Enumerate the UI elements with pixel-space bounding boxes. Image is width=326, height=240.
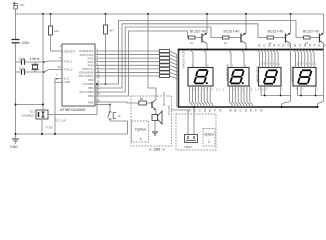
resistor pack 8x150R <box>160 50 179 80</box>
node rail-R1 <box>49 13 51 15</box>
svg-text:12p: 12p <box>19 57 25 61</box>
wire display4 segment pins <box>293 50 314 68</box>
option2 label frame <box>203 129 215 147</box>
wire left vertical <box>15 14 17 40</box>
display DIS1 <box>188 68 213 87</box>
+5V power symbol <box>13 2 24 14</box>
wire bottom gnd line <box>16 133 128 135</box>
wire segment lines from MCU <box>95 51 160 76</box>
wire display1 segment pins <box>190 86 213 107</box>
7seg digit 3 <box>264 70 278 83</box>
svg-text:ATMEGA8535: ATMEGA8535 <box>60 107 86 112</box>
resistor R1 10k reset pullup <box>49 14 63 51</box>
svg-text:<- OR ->: <- OR -> <box>149 147 166 152</box>
svg-text:10 9 7 6 4 2 1: 10 9 7 6 4 2 1 <box>259 62 281 66</box>
svg-text:RB20: RB20 <box>185 145 193 149</box>
svg-text:XTAL2: XTAL2 <box>64 67 73 71</box>
wire +5V to speaker transistor <box>148 14 156 100</box>
svg-text:Option: Option <box>135 127 147 132</box>
wire display2 segment pins <box>230 86 253 107</box>
node rail-opt1 <box>147 13 149 15</box>
wire digit line 3 <box>95 27 211 92</box>
wire option line B <box>95 104 110 106</box>
ground <box>10 139 19 149</box>
display DIS2 <box>228 68 249 87</box>
wire 100n branch to sensor <box>16 104 44 106</box>
MCU pin numbers left <box>56 44 62 81</box>
node rail-Q1 <box>206 13 208 15</box>
wire CA display2 <box>229 50 248 68</box>
node rail-sensor <box>42 13 44 15</box>
svg-text:+5V: +5V <box>19 3 24 7</box>
svg-text:Option: Option <box>204 133 215 137</box>
svg-text:1E: 1E <box>118 114 121 118</box>
svg-text:TO92: TO92 <box>46 126 54 130</box>
wire option line A <box>95 102 139 103</box>
transistor Q2 BC327-40 <box>211 14 246 50</box>
wire buzzer feed left <box>172 110 189 135</box>
buzzer BZ1 <box>185 135 198 150</box>
svg-text:GND: GND <box>64 80 72 84</box>
option1 dashed box <box>131 96 172 146</box>
node xtal junctions <box>43 61 45 63</box>
ground speaker <box>152 132 158 136</box>
wire xtal bottom <box>16 71 22 73</box>
svg-text:BC327-40: BC327-40 <box>303 30 319 34</box>
wire CA display1 <box>191 50 210 68</box>
resistor R4 2k <box>139 97 152 105</box>
capacitor C3 100n <box>12 40 30 46</box>
switch S1 <box>108 105 121 122</box>
MCU IC1 ATMEGA8 <box>60 44 95 112</box>
wire <box>25 61 45 63</box>
resistor R2 4k7 DQ pullup <box>104 14 115 84</box>
node DQ-pin <box>105 83 107 85</box>
svg-text:1k: 1k <box>190 41 194 45</box>
wire S1 to gnd line <box>110 121 128 134</box>
transistor Q6 BC337-40 <box>152 92 166 110</box>
node rail-R2 <box>104 13 106 15</box>
svg-text:BC327-40: BC327-40 <box>268 30 284 34</box>
wire display4 CA pins <box>296 86 324 96</box>
wire display3 segment pins <box>257 50 278 68</box>
wire display4 CA to bus <box>318 96 324 108</box>
svg-text:7 6 4 2 1 9 10 5: 7 6 4 2 1 9 10 5 <box>189 88 225 92</box>
+5V rail wire <box>16 13 324 15</box>
svg-text:(RESET): (RESET) <box>64 49 76 53</box>
option1 label frame <box>132 121 149 142</box>
svg-text:DS18B20: DS18B20 <box>22 114 35 118</box>
transistor Q3 BC327-40 <box>258 14 291 96</box>
wire display3 CA pins <box>260 86 291 96</box>
wire sensor gnd <box>41 119 43 134</box>
wire display3 CA to bus <box>282 96 291 108</box>
MCU pin numbers right <box>97 48 100 103</box>
svg-text:PB4: PB4 <box>88 94 94 98</box>
display DIS4 <box>293 68 316 87</box>
svg-text:8 OHM: 8 OHM <box>167 105 171 115</box>
svg-text:10 9 7 6 4 2 1: 10 9 7 6 4 2 1 <box>295 62 317 66</box>
svg-text:G C B A F E D: G C B A F E D <box>258 43 291 47</box>
wire digit line 4 <box>95 31 188 96</box>
svg-text:GND: GND <box>10 145 18 149</box>
wire digit line 2 <box>95 24 258 88</box>
svg-text:4k7: 4k7 <box>109 29 114 33</box>
node rail-Q3 <box>289 13 291 15</box>
7seg digit 4 <box>298 70 312 83</box>
svg-text:G C B A F E D: G C B A F E D <box>294 43 326 47</box>
capacitor C2 12p <box>19 67 25 75</box>
svg-text:BC327-40: BC327-40 <box>190 30 206 34</box>
wire segment bus bottom <box>178 106 319 108</box>
wire segment bus top <box>178 49 324 51</box>
wire xtal top <box>16 61 22 63</box>
svg-text:XTAL1: XTAL1 <box>64 59 73 63</box>
svg-text:BC337-40: BC337-40 <box>162 92 166 106</box>
svg-text:2: 2 <box>208 140 210 144</box>
node DQ riser top <box>96 83 98 85</box>
svg-text:SC56-11EWA: SC56-11EWA <box>182 50 186 68</box>
wire to XTAL2 <box>44 70 62 73</box>
node rail-Q2 <box>245 13 247 15</box>
svg-text:4 MHz: 4 MHz <box>30 57 40 61</box>
crystal Q5 4MHz <box>30 57 40 72</box>
7seg digit 1 <box>194 70 208 83</box>
svg-text:TCC-1A: TCC-1A <box>55 119 66 123</box>
svg-text:BC327-40: BC327-40 <box>224 30 240 34</box>
wire sensor vdd vertical from rail <box>42 14 44 110</box>
option2 dashed box <box>176 114 216 150</box>
svg-text:2k: 2k <box>140 97 144 101</box>
wire sensor DQ <box>48 114 97 116</box>
wire VCC GND stubs <box>55 78 62 80</box>
wire to XTAL1 <box>44 61 62 62</box>
7seg digit 2 <box>230 70 244 83</box>
wire digit line 1 <box>95 21 296 85</box>
sensor IC2 DS18B20 <box>22 110 54 130</box>
transistor Q4 BC327-40 <box>296 14 324 96</box>
svg-text:12p: 12p <box>19 67 25 71</box>
svg-text:1k: 1k <box>224 41 228 45</box>
capacitor C1 12p <box>19 57 25 65</box>
svg-text:100n: 100n <box>22 41 30 45</box>
speaker LS1 <box>152 105 171 132</box>
svg-text:10k: 10k <box>54 29 59 33</box>
wire DQ riser <box>96 84 98 115</box>
wire <box>25 71 45 73</box>
wire buzzer feed right <box>193 106 195 134</box>
wire segment bus vertical <box>178 50 180 108</box>
svg-text:PB5: PB5 <box>88 101 94 105</box>
display DIS3 <box>259 68 282 87</box>
svg-text:A B C D E F G: A B C D E F G <box>230 108 264 112</box>
transistor Q1 BC327-40 <box>188 14 208 50</box>
